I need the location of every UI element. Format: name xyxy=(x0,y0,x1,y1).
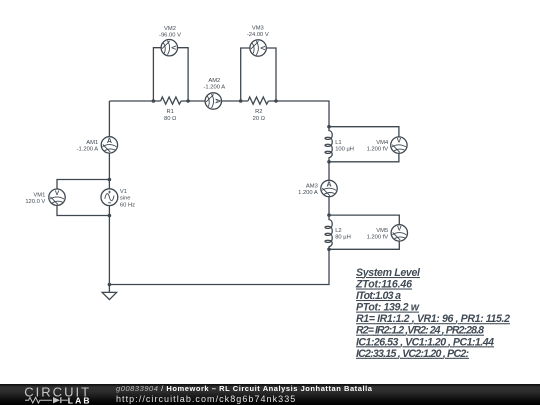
svg-text:PTot: 139.2 w: PTot: 139.2 w xyxy=(356,302,420,314)
svg-text:-96.00 V: -96.00 V xyxy=(159,33,181,39)
svg-text:V1: V1 xyxy=(120,189,127,195)
svg-text:R2= IR2:1.2 ,VR2: 24 , PR2:28.: R2= IR2:1.2 ,VR2: 24 , PR2:28.8 xyxy=(356,325,484,337)
svg-text:IC2:33.15 , VC2:1.20 , PC2:: IC2:33.15 , VC2:1.20 , PC2: xyxy=(356,348,469,360)
svg-text:60 Hz: 60 Hz xyxy=(120,202,135,208)
svg-text:-1.200 A: -1.200 A xyxy=(203,85,225,91)
svg-text:AM2: AM2 xyxy=(208,78,220,84)
svg-text:-24.00 V: -24.00 V xyxy=(247,32,269,38)
svg-text:IC1:26.53 , VC1:1.20 , PC1:1.4: IC1:26.53 , VC1:1.20 , PC1:1.44 xyxy=(356,336,494,348)
svg-text:sine: sine xyxy=(120,196,131,202)
svg-text:-1.200 A: -1.200 A xyxy=(77,147,99,153)
svg-text:80 µH: 80 µH xyxy=(335,234,351,240)
svg-text:120.0 V: 120.0 V xyxy=(25,199,45,205)
svg-text:VM5: VM5 xyxy=(376,228,388,234)
svg-text:VM2: VM2 xyxy=(164,26,176,32)
svg-text:AM1: AM1 xyxy=(86,140,98,146)
svg-text:LAB: LAB xyxy=(68,395,92,405)
svg-text:L1: L1 xyxy=(335,140,341,146)
svg-text:R2: R2 xyxy=(255,109,262,115)
svg-text:ZTot:116.46: ZTot:116.46 xyxy=(355,279,412,291)
svg-text:80 Ω: 80 Ω xyxy=(164,116,177,122)
svg-text:VM3: VM3 xyxy=(252,26,264,32)
svg-text:R1= IR1:1.2 , VR1: 96 , PR1: 1: R1= IR1:1.2 , VR1: 96 , PR1: 115.2 xyxy=(356,313,510,325)
svg-text:VM1: VM1 xyxy=(33,193,45,199)
svg-text:1.200 fV: 1.200 fV xyxy=(367,146,389,152)
svg-text:L2: L2 xyxy=(335,228,341,234)
svg-text:System Level: System Level xyxy=(356,267,421,279)
svg-text:20 Ω: 20 Ω xyxy=(253,116,266,122)
svg-text:VM4: VM4 xyxy=(376,140,389,146)
svg-text:100 µH: 100 µH xyxy=(335,146,354,152)
svg-text:R1: R1 xyxy=(166,109,173,115)
svg-text:1.200 A: 1.200 A xyxy=(298,190,318,196)
svg-text:AM3: AM3 xyxy=(306,184,318,190)
svg-text:1.200 fV: 1.200 fV xyxy=(367,234,389,240)
svg-text:ITot:1.03 a: ITot:1.03 a xyxy=(356,290,401,302)
